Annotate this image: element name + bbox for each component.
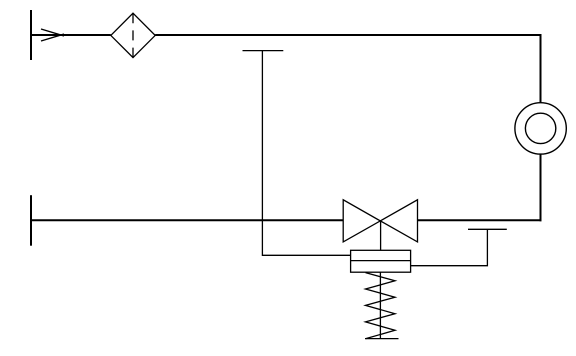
control valve body (bowtie) xyxy=(343,200,380,242)
filter element (dashed line) xyxy=(132,13,134,57)
actuator box divider xyxy=(351,260,411,262)
flow arrow xyxy=(41,29,64,41)
actuator / positioner box xyxy=(351,250,411,272)
filter F (diamond body) xyxy=(111,13,155,57)
wire: right vertical line from gauge to bottom line xyxy=(540,154,542,221)
vent T (top) bar xyxy=(243,50,284,52)
gauge/indicator outer circle xyxy=(515,103,566,154)
spring seat bar xyxy=(365,338,399,340)
supply boundary terminal (top-left) xyxy=(30,10,32,60)
process boundary terminal (bottom-left) xyxy=(30,195,32,246)
wire: bottom line left segment (boundary to valve inlet) xyxy=(30,219,343,221)
vent T (right) bar xyxy=(468,228,507,230)
signal line: vent T (right) to actuator right port xyxy=(411,229,488,265)
signal line: vent T (top) to actuator left port xyxy=(262,51,350,256)
spring coil (zigzag) xyxy=(366,273,396,339)
valve stem xyxy=(380,221,382,250)
wire: top line from filter to right corner and down to gauge xyxy=(155,35,540,103)
wire: top supply line from boundary to filter xyxy=(30,34,111,36)
wire: bottom line right segment (valve outlet to right corner) xyxy=(418,219,542,221)
spring center stem xyxy=(379,272,381,338)
gauge/indicator inner circle xyxy=(525,113,555,143)
